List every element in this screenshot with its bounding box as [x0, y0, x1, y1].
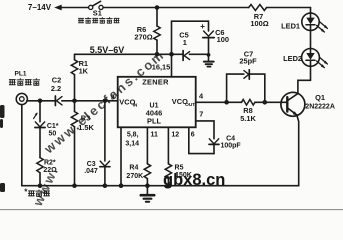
svg-text:1K: 1K: [79, 67, 89, 76]
capacitor C3: [100, 101, 110, 186]
svg-text:PL1: PL1: [15, 70, 27, 77]
LED1: [302, 8, 328, 33]
svg-text:2.2: 2.2: [51, 84, 61, 93]
svg-text:25pF: 25pF: [239, 57, 257, 66]
connector PL1 jack: [16, 93, 27, 104]
resistor R1: [71, 54, 77, 101]
svg-text:22Ω: 22Ω: [43, 167, 57, 174]
LED2: [302, 49, 328, 69]
junction pin4 wire / C7 left: [224, 100, 229, 105]
scan smudge left edge mid: [0, 105, 5, 128]
svg-text:OUT: OUT: [185, 102, 195, 108]
svg-text:C4: C4: [226, 136, 235, 143]
capacitor C6: [203, 31, 214, 55]
svg-text:R3: R3: [81, 114, 90, 123]
junction pin4 wire / C7 right: [263, 100, 268, 105]
svg-text:R4: R4: [129, 165, 138, 172]
wire input from jack: [27, 100, 55, 102]
node 5.5V-6V rail: [75, 53, 183, 55]
svg-text:7: 7: [199, 109, 203, 118]
junction input / R1 R3: [72, 99, 77, 104]
capacitor C5: [183, 51, 208, 61]
ground below C6: [204, 55, 214, 67]
wire jack sleeve down: [21, 105, 23, 186]
svg-text:.047: .047: [84, 168, 98, 175]
svg-text:11: 11: [150, 131, 158, 138]
junction rail / IC pins stub: [119, 183, 124, 188]
svg-text:LED2: LED2: [283, 54, 302, 63]
capacitor C2: [55, 96, 117, 106]
wire zener pin stub 16,15: [171, 54, 173, 77]
junction input / C3 branch: [103, 99, 108, 104]
svg-text:3,14: 3,14: [125, 140, 139, 147]
wire bottom ground rail: [22, 185, 299, 187]
wire pin 7 to C4: [196, 121, 214, 139]
capacitor C4: [209, 139, 219, 154]
junction rail / R3: [72, 183, 77, 188]
wire LED2 to Q1 collector: [310, 66, 312, 80]
junction input / C1 branch: [38, 99, 43, 104]
wire LED1 to LED2: [310, 31, 312, 49]
label *见正文: [24, 188, 49, 197]
svg-text:gbx8.cn: gbx8.cn: [163, 171, 225, 189]
svg-text:C3: C3: [87, 161, 96, 168]
svg-text:5.5V–6V: 5.5V–6V: [90, 45, 125, 55]
label VCO OUT: [172, 97, 195, 108]
svg-text:9: 9: [111, 92, 115, 101]
svg-text:100pF: 100pF: [220, 143, 241, 150]
resistor R2: [37, 158, 43, 186]
svg-text:S1: S1: [93, 8, 102, 17]
switch S1: [89, 1, 104, 9]
resistor R8: [242, 100, 255, 106]
ground symbol below rail: [141, 186, 154, 202]
svg-text:100Ω: 100Ω: [250, 19, 268, 28]
svg-text:5.1K: 5.1K: [240, 114, 256, 123]
resistor R5: [165, 127, 171, 185]
wire R8 to Q1 base: [255, 101, 286, 103]
wire top rail from S1 to R7: [103, 7, 249, 9]
svg-text:50: 50: [49, 131, 57, 138]
resistor R3: [71, 101, 77, 186]
svg-text:LED1: LED1: [281, 22, 300, 31]
wire zener loop: [172, 21, 209, 54]
svg-text:C1*: C1*: [47, 123, 59, 130]
svg-text:270K: 270K: [126, 173, 143, 180]
junction top rail / R6: [155, 5, 160, 10]
svg-text:PLL: PLL: [147, 117, 161, 126]
junction rail / R5: [166, 183, 171, 188]
svg-text:IN: IN: [133, 102, 138, 108]
junction C5/C6 ground corner: [207, 53, 211, 57]
svg-text:7–14V: 7–14V: [28, 3, 52, 12]
label 音频输入: [9, 79, 39, 86]
transistor Q1: [281, 80, 311, 185]
junction rail / R2: [38, 183, 43, 188]
svg-text:5,8,: 5,8,: [127, 131, 139, 138]
svg-text:16,15: 16,15: [152, 62, 171, 71]
svg-text:R2*: R2*: [44, 160, 56, 167]
svg-text:ZENER: ZENER: [142, 78, 169, 87]
svg-text:270Ω: 270Ω: [134, 33, 152, 42]
bottom border line: [0, 209, 343, 211]
resistor R4: [144, 127, 150, 186]
junction rail / R4 ground: [145, 183, 150, 188]
op-amp U1 4046 IC box: [118, 77, 196, 128]
wire arrow to switch S1: [61, 7, 88, 9]
label 单刀单掷开关: [78, 17, 119, 23]
scan smudge left edge bottom: [0, 183, 5, 192]
label VCO IN: [119, 97, 138, 108]
resistor R6: [154, 8, 160, 55]
arrowhead to 7-14V: [54, 5, 62, 11]
wire pin 5,8,3,14 stub to ground rail: [120, 127, 122, 185]
junction rail / R6: [155, 52, 160, 57]
svg-text:6: 6: [191, 131, 195, 138]
wire pin 6 to C4: [189, 127, 214, 153]
capacitor C1 trimmer: [34, 101, 46, 158]
wire pin 4 VCO out to R8: [196, 101, 242, 103]
junction rail / C3: [103, 183, 108, 188]
capacitor C7: [227, 70, 265, 103]
svg-text:100: 100: [217, 35, 229, 44]
svg-text:2N2222A: 2N2222A: [305, 104, 335, 111]
svg-text:1.5K: 1.5K: [78, 123, 94, 132]
svg-text:Q1: Q1: [315, 93, 325, 102]
svg-text:1: 1: [183, 38, 187, 47]
svg-text:12: 12: [171, 131, 179, 138]
svg-text:+: +: [200, 22, 205, 31]
resistor R7: [249, 5, 311, 11]
junction rail / zener feed: [169, 52, 174, 57]
